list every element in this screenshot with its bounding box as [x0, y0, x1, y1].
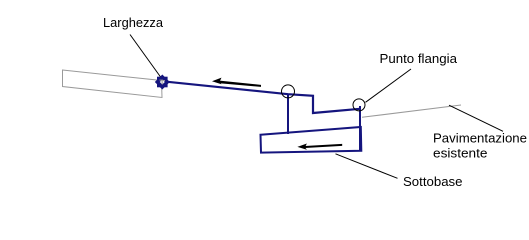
svg-text:Larghezza: Larghezza	[103, 15, 164, 30]
leader line Pavimentazione esistente	[449, 105, 503, 131]
svg-text:Punto flangia: Punto flangia	[380, 51, 458, 66]
wire: vertical drop from node circle 1	[287, 94, 289, 134]
wire: vertical drop from node circle 2 (right edge of subbase)	[359, 106, 361, 152]
direction arrow 2	[297, 144, 342, 150]
leader line Sottobase	[336, 154, 398, 179]
node circle 1	[282, 85, 295, 98]
direction arrow 1	[212, 78, 261, 87]
width snap marker (8-point star)	[155, 75, 170, 90]
svg-text:Sottobase: Sottobase	[403, 174, 463, 189]
leader line Larghezza	[130, 35, 162, 80]
node circle 2 (flange point)	[353, 99, 365, 111]
subbase outline (blue quad)	[261, 127, 362, 153]
leader line Punto flangia	[366, 69, 412, 102]
existing pavement slab (gray quad, left)	[63, 70, 163, 98]
wire: main blue surface line to step	[162, 81, 361, 113]
svg-text:esistente: esistente	[433, 146, 488, 161]
svg-text:Pavimentazione: Pavimentazione	[433, 131, 527, 146]
existing pavement ground line (gray, right)	[362, 105, 461, 117]
